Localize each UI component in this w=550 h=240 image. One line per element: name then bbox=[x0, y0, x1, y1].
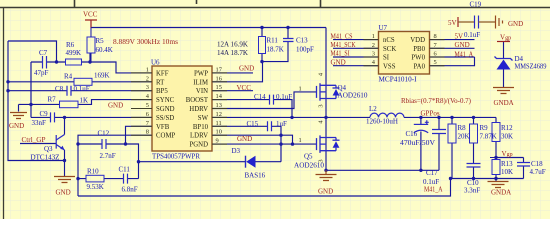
transistor Q3 bbox=[56, 135, 64, 151]
ground GNDA2 bbox=[488, 182, 509, 188]
svg-text:R12: R12 bbox=[501, 124, 513, 132]
svg-text:Vgp: Vgp bbox=[500, 34, 511, 42]
svg-text:M41_A: M41_A bbox=[455, 51, 474, 59]
svg-text:C7: C7 bbox=[39, 49, 48, 57]
wire R12 column bbox=[495, 117, 497, 178]
svg-text:14: 14 bbox=[216, 93, 223, 100]
svg-text:5V: 5V bbox=[448, 19, 457, 27]
capacitor C12 bbox=[102, 139, 106, 149]
wire C12 row bbox=[78, 144, 139, 179]
svg-text:Vgp: Vgp bbox=[502, 150, 513, 158]
wire pin8 COMP and bus C bbox=[78, 135, 152, 196]
diode D4 MMSZ4689 zener bbox=[495, 57, 513, 61]
svg-text:M41_CS: M41_CS bbox=[331, 32, 353, 40]
power port Vgp top bbox=[497, 41, 510, 43]
svg-text:R9: R9 bbox=[480, 124, 489, 132]
svg-text:C15: C15 bbox=[247, 120, 259, 128]
svg-text:3: 3 bbox=[372, 51, 375, 58]
svg-text:3: 3 bbox=[318, 159, 325, 162]
svg-text:GND: GND bbox=[455, 41, 470, 49]
resistor R10 bbox=[86, 175, 104, 182]
svg-text:TPS40057PWPR: TPS40057PWPR bbox=[152, 153, 200, 161]
svg-text:C13: C13 bbox=[296, 37, 308, 45]
wire pin10 LDRV bbox=[212, 135, 293, 144]
U6 pin stubs right bbox=[212, 73, 227, 144]
svg-text:1uF: 1uF bbox=[276, 120, 287, 128]
svg-text:30K: 30K bbox=[501, 133, 513, 141]
svg-text:Q5: Q5 bbox=[304, 153, 313, 161]
power port VCC top bbox=[85, 20, 97, 28]
svg-text:3: 3 bbox=[318, 104, 325, 107]
svg-text:470uF/50V: 470uF/50V bbox=[400, 139, 435, 147]
svg-text:0.1uF: 0.1uF bbox=[464, 31, 480, 39]
capacitor C8 bbox=[67, 86, 71, 96]
svg-text:18.7K: 18.7K bbox=[267, 46, 284, 54]
svg-text:SW: SW bbox=[198, 115, 209, 122]
resistor R7 bbox=[60, 101, 79, 108]
svg-text:MMSZ4689: MMSZ4689 bbox=[515, 63, 547, 71]
svg-text:PWP: PWP bbox=[194, 70, 208, 77]
IC U7 MCP41010-I body bbox=[379, 32, 430, 75]
transistor Q5 AOD2610 bbox=[317, 135, 340, 153]
capacitor C14 bbox=[270, 95, 274, 105]
diode D3 BAS16 bbox=[245, 156, 247, 168]
svg-text:M41_SI: M41_SI bbox=[331, 50, 351, 58]
svg-text:60.4K: 60.4K bbox=[96, 46, 113, 54]
capacitor C19 bbox=[475, 16, 479, 29]
wire Vgp node row bbox=[496, 157, 524, 159]
capacitor C17 bbox=[432, 130, 446, 134]
svg-text:R4: R4 bbox=[64, 73, 73, 81]
svg-text:3.3nF: 3.3nF bbox=[464, 187, 480, 195]
svg-text:R10: R10 bbox=[87, 168, 99, 176]
capacitor C7 bbox=[43, 56, 47, 69]
svg-text:PW0: PW0 bbox=[411, 55, 425, 62]
svg-text:PGND: PGND bbox=[189, 142, 208, 149]
wire R8 column bbox=[451, 117, 453, 178]
wire pin11 BP10 C15 bbox=[212, 126, 281, 161]
power ground symbol at C19 bbox=[479, 16, 503, 29]
wire VCC rail corner to Q4 drain bbox=[325, 28, 327, 86]
capacitor C9 bbox=[51, 112, 55, 122]
svg-text:7.87K: 7.87K bbox=[480, 133, 497, 141]
resistor R6 bbox=[66, 59, 82, 65]
wire Q5 gate bbox=[293, 143, 317, 145]
svg-text:GND: GND bbox=[508, 20, 523, 28]
svg-text:VCC: VCC bbox=[83, 11, 98, 19]
IC U6 TPS40057PWPR body bbox=[152, 66, 212, 151]
svg-text:1: 1 bbox=[299, 85, 302, 92]
svg-text:C9: C9 bbox=[40, 110, 49, 118]
wire pin14 BOOST C14 bbox=[212, 100, 292, 118]
svg-text:VIN: VIN bbox=[196, 88, 208, 95]
resistor R8 bbox=[448, 124, 456, 143]
svg-text:GND: GND bbox=[237, 135, 252, 143]
svg-text:GND: GND bbox=[239, 65, 254, 73]
svg-text:1: 1 bbox=[146, 66, 149, 73]
svg-text:BOOST: BOOST bbox=[186, 97, 209, 104]
svg-text:VFB: VFB bbox=[156, 124, 170, 131]
svg-text:17: 17 bbox=[216, 66, 223, 73]
wire R11 column bbox=[262, 28, 288, 62]
svg-text:GNDA: GNDA bbox=[494, 99, 514, 107]
svg-text:GND: GND bbox=[331, 58, 346, 66]
U6 pin stubs left bbox=[131, 73, 152, 135]
svg-text:11: 11 bbox=[216, 120, 222, 127]
svg-text:GPPos: GPPos bbox=[421, 110, 440, 118]
capacitor C16 electrolytic bbox=[414, 120, 429, 133]
svg-text:SGND: SGND bbox=[156, 106, 175, 113]
svg-text:9: 9 bbox=[216, 138, 219, 145]
power port 5V top right bbox=[458, 17, 475, 27]
wire GND1 stem bbox=[18, 105, 20, 112]
U7 pin stubs bbox=[364, 40, 445, 66]
capacitor C15 bbox=[268, 121, 272, 131]
svg-text:M41_SCK: M41_SCK bbox=[331, 41, 356, 49]
svg-text:SYNC: SYNC bbox=[156, 97, 175, 104]
resistor R4 bbox=[74, 78, 92, 85]
svg-text:SI: SI bbox=[383, 55, 390, 62]
svg-text:PB0: PB0 bbox=[413, 46, 425, 53]
svg-text:C16: C16 bbox=[406, 130, 418, 138]
wire bus A left bbox=[8, 41, 65, 161]
inductor L2 bbox=[370, 113, 404, 117]
ground GNDA1 under D4 bbox=[493, 88, 514, 94]
wire pin7 VFB riser bbox=[126, 126, 153, 144]
svg-text:ILIM: ILIM bbox=[193, 79, 208, 86]
svg-text:0.1uF: 0.1uF bbox=[276, 93, 292, 101]
svg-text:BP10: BP10 bbox=[193, 124, 209, 131]
svg-text:R7: R7 bbox=[48, 96, 57, 104]
wire pin9 PGND row bbox=[212, 143, 293, 145]
svg-text:4.7uF: 4.7uF bbox=[530, 168, 546, 176]
svg-text:6: 6 bbox=[434, 51, 437, 58]
svg-text:C8: C8 bbox=[55, 85, 64, 93]
svg-text:BP5: BP5 bbox=[156, 88, 168, 95]
svg-text:12A 16.9K: 12A 16.9K bbox=[217, 41, 248, 49]
U7 pin names bbox=[383, 37, 426, 70]
svg-text:R11: R11 bbox=[267, 37, 279, 45]
svg-text:HDRV: HDRV bbox=[189, 106, 208, 113]
wire M41_A bottom rail bbox=[78, 179, 451, 197]
svg-text:VCC: VCC bbox=[237, 84, 252, 92]
wire C9 row pin6 bbox=[31, 116, 152, 118]
svg-text:8: 8 bbox=[434, 33, 437, 40]
svg-text:SCK: SCK bbox=[383, 46, 396, 53]
wire pin12 SW row bbox=[212, 116, 496, 118]
svg-text:GND: GND bbox=[9, 122, 24, 130]
power port Vgp mid right bbox=[490, 157, 496, 159]
svg-text:C19: C19 bbox=[470, 1, 482, 9]
svg-text:PA0: PA0 bbox=[414, 63, 426, 70]
svg-text:Rbias=(0.7*R8)/(Vo-0.7): Rbias=(0.7*R8)/(Vo-0.7) bbox=[401, 97, 472, 105]
svg-text:20K: 20K bbox=[458, 133, 470, 141]
svg-text:2: 2 bbox=[372, 42, 375, 49]
svg-text:12: 12 bbox=[216, 111, 222, 118]
resistor R5 bbox=[87, 37, 95, 53]
svg-text:U7: U7 bbox=[379, 24, 388, 32]
svg-text:MCP41010-I: MCP41010-I bbox=[379, 76, 418, 84]
ground GND3 under Q5 bbox=[316, 170, 337, 180]
capacitor C11 bbox=[124, 174, 128, 184]
svg-text:C12: C12 bbox=[98, 130, 110, 138]
wire bus B bbox=[30, 62, 32, 117]
svg-text:R5: R5 bbox=[96, 37, 105, 45]
wire R10 C11 row bbox=[78, 178, 139, 180]
svg-text:C14: C14 bbox=[254, 93, 266, 101]
svg-text:Ctrl_GP: Ctrl_GP bbox=[22, 136, 46, 144]
svg-text:47pF: 47pF bbox=[34, 69, 49, 77]
svg-text:M41_A: M41_A bbox=[424, 186, 443, 194]
svg-text:R8: R8 bbox=[458, 124, 467, 132]
svg-text:AOD2610: AOD2610 bbox=[338, 92, 369, 100]
wire D4 anode to GNDA1 bbox=[503, 70, 505, 88]
svg-text:GND: GND bbox=[108, 102, 123, 110]
svg-text:VDD: VDD bbox=[410, 37, 425, 44]
sheet border top bbox=[0, 0, 550, 8]
svg-text:D3: D3 bbox=[232, 147, 241, 155]
svg-text:2: 2 bbox=[146, 75, 149, 82]
svg-text:8.889V 300kHz 10ms: 8.889V 300kHz 10ms bbox=[113, 38, 178, 46]
wire GND3 row bbox=[326, 169, 439, 171]
wire C17 column bbox=[438, 117, 440, 170]
svg-text:DTC143Z: DTC143Z bbox=[31, 154, 60, 162]
svg-text:nCS: nCS bbox=[383, 37, 395, 44]
svg-text:8: 8 bbox=[146, 129, 149, 136]
svg-text:16: 16 bbox=[216, 75, 222, 82]
wire pin15 VIN VCC bbox=[212, 90, 253, 92]
wire top-left loop bbox=[8, 41, 57, 62]
resistor R11 bbox=[259, 37, 266, 54]
svg-text:100pF: 100pF bbox=[296, 46, 314, 54]
sheet border left bbox=[3, 8, 5, 220]
svg-text:C18: C18 bbox=[531, 160, 543, 168]
svg-text:SS/SD: SS/SD bbox=[156, 115, 174, 122]
svg-text:5: 5 bbox=[146, 102, 149, 109]
svg-text:13: 13 bbox=[216, 102, 222, 109]
svg-text:VSS: VSS bbox=[383, 63, 396, 70]
wire VCC rail bbox=[91, 27, 326, 29]
svg-text:33nF: 33nF bbox=[32, 119, 47, 127]
svg-text:RT: RT bbox=[156, 79, 165, 86]
U6 pin numbers bbox=[146, 66, 223, 144]
wire D3 row bbox=[139, 161, 282, 163]
resistor R12 bbox=[492, 123, 500, 142]
svg-text:C17: C17 bbox=[426, 169, 438, 177]
svg-text:169K: 169K bbox=[94, 72, 110, 80]
ground GND1 bbox=[10, 113, 27, 119]
svg-text:Q3: Q3 bbox=[44, 145, 53, 153]
svg-text:10: 10 bbox=[216, 129, 222, 136]
svg-text:1K: 1K bbox=[80, 97, 89, 105]
capacitor C18 bbox=[517, 163, 530, 167]
U6 pin names bbox=[156, 70, 209, 148]
wire Vgp1 stem bbox=[503, 42, 505, 59]
wire Q4-Q5 drain source column bbox=[325, 85, 327, 170]
svg-text:C11: C11 bbox=[119, 166, 131, 174]
svg-text:1260-10uH: 1260-10uH bbox=[366, 118, 398, 126]
wire C13 top bbox=[287, 28, 289, 39]
svg-text:9.53K: 9.53K bbox=[87, 183, 104, 191]
wire Q3 collector bbox=[64, 117, 66, 134]
svg-text:14A 18.7K: 14A 18.7K bbox=[217, 49, 248, 57]
wire pin17 GND bbox=[212, 72, 253, 74]
svg-text:LDRV: LDRV bbox=[190, 133, 208, 140]
svg-text:6: 6 bbox=[146, 111, 149, 118]
wire C7 row bbox=[31, 61, 57, 63]
wire C8 row pin3 bbox=[8, 90, 152, 92]
svg-text:U6: U6 bbox=[151, 59, 160, 67]
transistor Q4 AOD2610 bbox=[317, 83, 340, 101]
Q4 Q5 pin numbers bbox=[299, 72, 325, 163]
wire Ctrl_GP bbox=[20, 143, 56, 145]
wire Q3 emitter down bbox=[64, 150, 66, 176]
wire C18 column bbox=[523, 158, 525, 179]
svg-text:R6: R6 bbox=[66, 41, 75, 49]
wire R9 C10 column bbox=[473, 117, 475, 178]
svg-text:5: 5 bbox=[434, 59, 437, 66]
ground GND2 under Q3 bbox=[54, 177, 75, 183]
resistor R9 bbox=[470, 124, 478, 143]
wire R4 row pin2 bbox=[8, 81, 152, 83]
svg-text:BAS16: BAS16 bbox=[245, 172, 266, 180]
U7 pin numbers bbox=[372, 33, 438, 66]
svg-text:L2: L2 bbox=[369, 105, 377, 113]
svg-text:499K: 499K bbox=[66, 49, 82, 57]
svg-text:GND: GND bbox=[318, 188, 333, 196]
svg-text:1: 1 bbox=[299, 137, 302, 144]
svg-text:3: 3 bbox=[146, 84, 149, 91]
svg-text:R13: R13 bbox=[501, 160, 513, 168]
svg-text:0.1uF: 0.1uF bbox=[74, 85, 90, 93]
capacitor C13 bbox=[283, 39, 294, 42]
svg-text:GND: GND bbox=[56, 189, 71, 197]
svg-text:15: 15 bbox=[216, 84, 222, 91]
svg-text:10K: 10K bbox=[501, 168, 513, 176]
svg-text:2.7nF: 2.7nF bbox=[100, 152, 116, 160]
svg-text:5V: 5V bbox=[455, 32, 464, 40]
wire U7 right nets bbox=[430, 40, 475, 66]
wire R7 row bbox=[19, 100, 153, 105]
wire pin16 ILIM riser bbox=[212, 62, 263, 82]
wire bottom rail right bbox=[451, 178, 524, 180]
wire pin13 HDRV to Q4 gate bbox=[212, 92, 317, 109]
wire U7 left nets bbox=[333, 40, 379, 66]
svg-text:COMP: COMP bbox=[156, 133, 175, 140]
svg-text:1: 1 bbox=[372, 33, 375, 40]
wire GNDA2 stem bbox=[495, 179, 497, 182]
resistor R13 bbox=[492, 160, 500, 175]
capacitor C10 bbox=[467, 164, 481, 168]
svg-text:GNDA: GNDA bbox=[491, 189, 511, 197]
svg-text:KFF: KFF bbox=[156, 70, 169, 77]
svg-text:6.8nF: 6.8nF bbox=[122, 186, 138, 194]
wire R6 right to pin1 KFF bbox=[57, 53, 153, 73]
wire C16 column bbox=[420, 117, 422, 170]
